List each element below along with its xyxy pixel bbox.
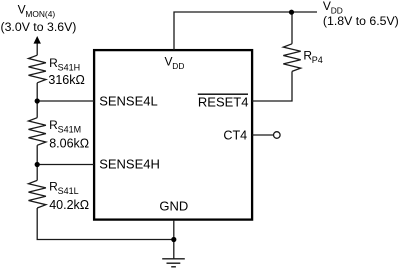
svg-text:DD: DD — [172, 61, 184, 71]
svg-text:P4: P4 — [312, 55, 323, 65]
svg-text:(1.8V to 6.5V): (1.8V to 6.5V) — [323, 14, 398, 28]
svg-text:MON(4): MON(4) — [25, 9, 55, 19]
svg-text:SENSE4H: SENSE4H — [99, 157, 160, 172]
svg-text:(3.0V to 3.6V): (3.0V to 3.6V) — [1, 20, 77, 34]
svg-text:RESET4: RESET4 — [198, 95, 249, 110]
svg-text:GND: GND — [159, 199, 188, 214]
svg-text:40.2kΩ: 40.2kΩ — [49, 198, 89, 212]
svg-text:S41M: S41M — [58, 125, 82, 135]
svg-text:S41L: S41L — [58, 186, 79, 196]
svg-text:SENSE4L: SENSE4L — [99, 93, 158, 108]
svg-text:S41H: S41H — [58, 63, 81, 73]
svg-text:8.06kΩ: 8.06kΩ — [49, 137, 89, 151]
svg-text:CT4: CT4 — [223, 128, 247, 142]
svg-text:316kΩ: 316kΩ — [48, 73, 84, 87]
